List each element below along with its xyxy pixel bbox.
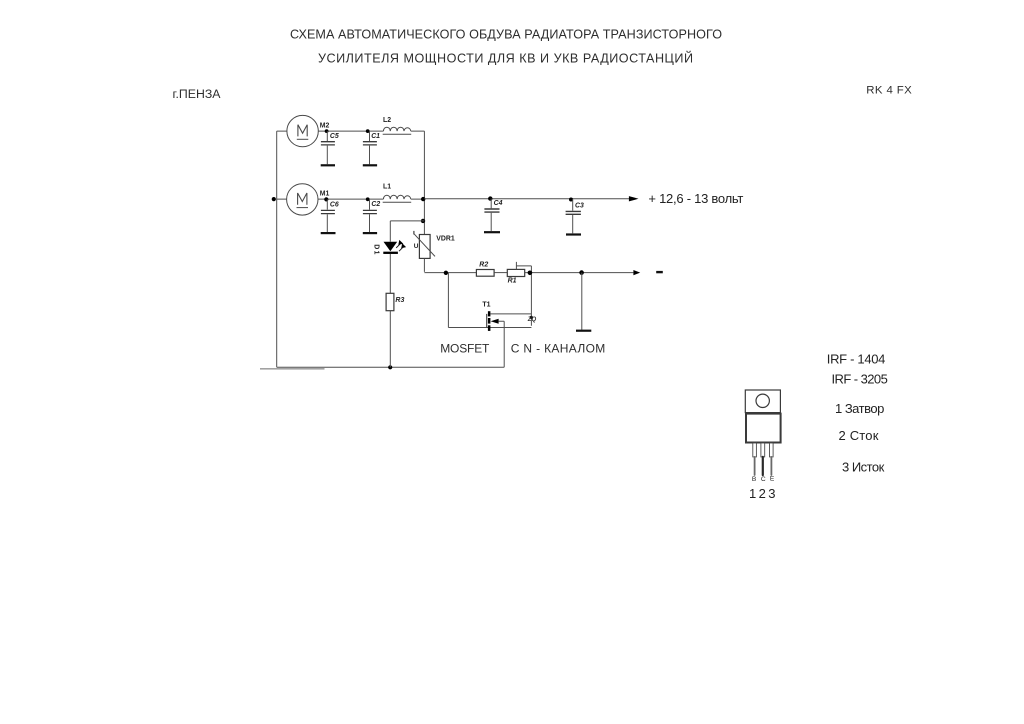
TO-220 hole (756, 394, 769, 407)
wire output positive (424, 198, 633, 200)
svg-text:M1: M1 (320, 191, 330, 198)
TO-220 leg 2 (761, 443, 765, 457)
capacitor C3 (572, 199, 574, 211)
TO-220 body (746, 414, 781, 443)
svg-text:RK 4 FX: RK 4 FX (866, 84, 912, 96)
svg-text:C2: C2 (371, 201, 380, 208)
svg-text:R2: R2 (479, 261, 488, 268)
node L1 / rail junction (421, 197, 425, 201)
wire lower row (277, 198, 425, 200)
TO-220 leg 3 (770, 443, 774, 457)
R1 tap wire (516, 262, 531, 326)
svg-text:СХЕМА АВТОМАТИЧЕСКОГО ОБДУВА: СХЕМА АВТОМАТИЧЕСКОГО ОБДУВА РАДИАТОРА Т… (290, 28, 722, 42)
inductor L2 (383, 127, 410, 131)
node left rail / M1 junction (272, 197, 276, 201)
svg-text:IRF - 3205: IRF - 3205 (832, 372, 888, 387)
resistor R3 (386, 293, 394, 310)
bottom wire artifact segment (260, 368, 325, 370)
svg-text:R3: R3 (395, 297, 404, 304)
svg-text:L1: L1 (383, 184, 391, 191)
svg-text:C6: C6 (330, 202, 339, 209)
arrow positive output (629, 196, 639, 201)
svg-text:VDR1: VDR1 (436, 236, 455, 243)
wire gate loop (448, 273, 531, 328)
svg-text:3 Исток: 3 Исток (842, 460, 885, 475)
node VDR1 bottom junction (444, 271, 448, 275)
wire R3 to bottom (389, 311, 391, 368)
resistor R2 (476, 270, 494, 277)
svg-text:УСИЛИТЕЛЯ МОЩНОСТИ ДЛЯ КВ: УСИЛИТЕЛЯ МОЩНОСТИ ДЛЯ КВ И УКВ РАДИОСТА… (318, 51, 693, 66)
svg-text:1 Затвор: 1 Затвор (835, 401, 884, 416)
wire R2-R1 (494, 272, 507, 274)
transistor T1 channel segments (488, 311, 491, 316)
capacitor C5 (326, 131, 328, 141)
node C2 junction (366, 197, 370, 201)
wire negative branch down (581, 273, 583, 330)
node C1 junction (366, 129, 370, 133)
transistor T1 source arrow (491, 319, 499, 324)
svg-text:+ 12,6 - 13 вольт: + 12,6 - 13 вольт (648, 191, 743, 206)
wire VDR1 bottom (424, 259, 476, 273)
svg-text:T1: T1 (482, 301, 490, 308)
svg-text:C3: C3 (575, 203, 584, 210)
label minus (656, 271, 663, 273)
wire LED to R3 (389, 254, 391, 293)
svg-text:MOSFET: MOSFET (440, 342, 490, 356)
svg-text:R1: R1 (508, 278, 517, 285)
left rail wire (276, 131, 278, 367)
terminal bar negative branch (576, 330, 591, 332)
node negative branch junction (579, 270, 584, 275)
wire right vertical rail (423, 131, 425, 234)
wire negative output (525, 272, 634, 274)
inductor L1 (383, 195, 410, 199)
svg-text:2 Сток: 2 Сток (839, 428, 879, 443)
svg-text:D1: D1 (373, 244, 380, 255)
svg-text:С N - КАНАЛОМ: С N - КАНАЛОМ (511, 342, 606, 356)
svg-text:C5: C5 (330, 133, 339, 140)
transistor T1 drain wire (490, 313, 531, 315)
svg-text:C: C (761, 476, 766, 483)
motor M1 (287, 184, 318, 215)
motor M2 (287, 115, 318, 146)
capacitor C1 (369, 131, 371, 141)
capacitor C4 (490, 199, 492, 209)
node R1 output junction (528, 271, 533, 276)
arrow negative output (633, 270, 640, 275)
node LED-branch junction (421, 219, 425, 223)
TO-220 leg 1 (753, 443, 757, 457)
svg-text:IRF - 1404: IRF - 1404 (827, 352, 886, 367)
node M2/C5 junction (325, 129, 329, 133)
transistor T1 gate line (486, 314, 488, 328)
node C3 junction (569, 198, 573, 202)
svg-text:U: U (414, 243, 419, 250)
svg-text:B: B (752, 476, 757, 483)
LED arrows (396, 244, 400, 248)
svg-text:L2: L2 (383, 117, 391, 124)
capacitor C6 (326, 199, 328, 209)
node C4 junction (488, 196, 492, 200)
varistor VDR1 (419, 235, 430, 259)
resistor R1 trimmer (507, 269, 524, 276)
svg-text:C4: C4 (494, 200, 503, 207)
svg-text:1 2 3: 1 2 3 (749, 486, 776, 501)
node R3-bottom junction (388, 365, 392, 369)
capacitor C2 (369, 199, 371, 210)
svg-text:E: E (770, 475, 775, 482)
svg-text:C1: C1 (371, 133, 380, 140)
node M1/C6 junction (324, 197, 328, 201)
svg-text:г.ПЕНЗА: г.ПЕНЗА (173, 87, 222, 101)
svg-text:M2: M2 (320, 122, 330, 129)
bottom wire (277, 366, 505, 368)
wire upper row (277, 130, 425, 132)
wire LED branch (390, 221, 424, 242)
LED D1 (384, 242, 398, 252)
TO-220 tab (745, 390, 780, 413)
